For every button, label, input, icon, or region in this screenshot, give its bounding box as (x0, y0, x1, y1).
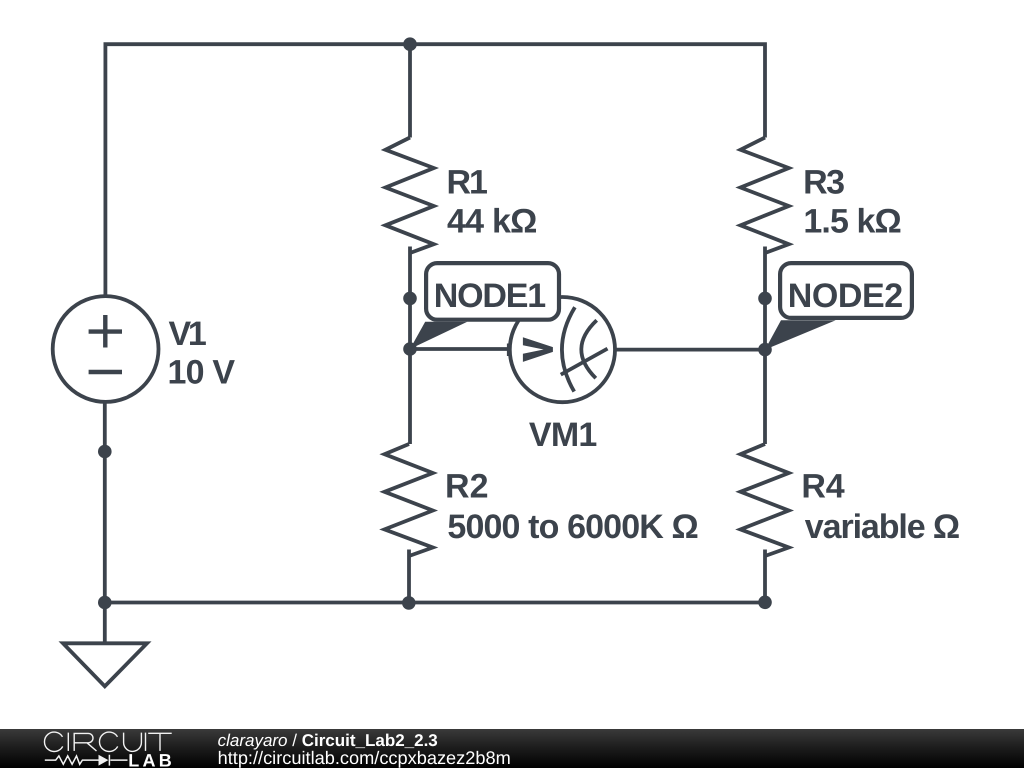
wire bottom rail (105, 601, 765, 605)
resistor R2 (385, 444, 433, 556)
resistor R4 (741, 444, 789, 556)
NODE2 flag tail (765, 320, 836, 349)
wire R1 top lead (408, 44, 412, 137)
voltmeter VM1 circle (510, 297, 615, 402)
NODE2 flag box (780, 263, 912, 318)
footer bar (0, 729, 1024, 768)
svg-text:VM1: VM1 (529, 416, 597, 454)
voltmeter VM1 chevron (523, 337, 553, 362)
svg-text:44 kΩ: 44 kΩ (447, 202, 537, 240)
svg-text:R2: R2 (445, 468, 489, 506)
voltmeter VM1 arc left (562, 307, 575, 391)
V1 minus sign (89, 370, 122, 374)
wire V1 bottom to ground (103, 402, 107, 643)
junction node A (NODE1) (403, 342, 417, 356)
junction dot bottom R2 (402, 596, 416, 610)
wire R3 bottom to node2 (763, 247, 767, 350)
svg-text:LAB: LAB (128, 750, 175, 768)
svg-text:NODE2: NODE2 (788, 277, 903, 315)
svg-text:NODE1: NODE1 (434, 277, 547, 315)
logo resistor squiggle and diode (45, 755, 128, 766)
junction dot R3 terminal (758, 292, 772, 306)
resistor R1 (386, 138, 434, 254)
resistor R3 (741, 138, 789, 254)
voltmeter VM1 needle line (561, 349, 608, 375)
svg-text:1.5 kΩ: 1.5 kΩ (803, 202, 901, 240)
junction dot top R1 (403, 37, 417, 51)
logo CIRCUIT hand-drawn letters (44, 732, 171, 751)
voltage source V1 circle (53, 296, 159, 402)
svg-text:variable Ω: variable Ω (805, 508, 960, 546)
svg-text:10 V: 10 V (168, 353, 236, 391)
wire voltmeter to node2 (615, 348, 765, 352)
junction node B (NODE2) (758, 343, 772, 357)
svg-text:http://circuitlab.com/ccpxbaze: http://circuitlab.com/ccpxbazez2b8m (218, 748, 511, 768)
junction dot bottom R4 (758, 596, 772, 610)
wire node1 to voltmeter (410, 347, 510, 351)
wire R1 bottom to node1 (408, 247, 412, 350)
svg-text:R4: R4 (801, 468, 844, 506)
svg-text:R1: R1 (447, 163, 488, 201)
V1 plus sign (89, 315, 122, 348)
logo diode triangle (99, 755, 109, 766)
wire R4 bottom stub (763, 550, 767, 603)
voltmeter VM1 arc right (581, 320, 596, 378)
wire node1 to R2 (408, 349, 412, 444)
NODE1 flag box (426, 263, 559, 320)
junction dot V1 lead (98, 445, 112, 459)
junction dot bottom left (98, 596, 112, 610)
ground (63, 643, 147, 686)
svg-text:V1: V1 (169, 315, 207, 353)
NODE1 flag tail (410, 322, 467, 349)
svg-text:R3: R3 (803, 163, 845, 201)
junction dot R1 terminal (403, 292, 417, 306)
svg-text:5000 to 6000K Ω: 5000 to 6000K Ω (447, 508, 698, 546)
wire R2 bottom stub (407, 550, 411, 603)
voltmeter VM1 terminal tick (507, 344, 511, 357)
wire top rail (105, 44, 765, 296)
wire node2 to R4 (763, 350, 767, 444)
